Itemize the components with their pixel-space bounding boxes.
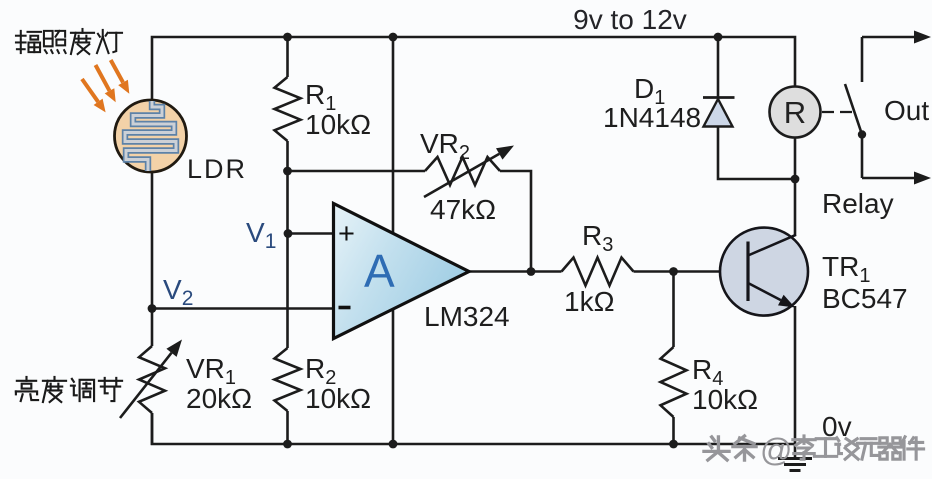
op-amp minus input label [339,306,351,310]
node op-amp output junction [527,267,536,276]
node D1 top junction [714,33,723,42]
svg-text:10kΩ: 10kΩ [305,109,371,140]
svg-text:LDR: LDR [187,154,247,184]
watermark chinese part1 [704,436,756,460]
label chinese brightness-adjust [16,377,122,402]
node x393 bottom junction [389,440,398,449]
svg-text:R: R [784,95,806,130]
LDR light arrow 1 [82,79,98,102]
node V2 junction [148,304,157,313]
transistor TR1 BC547 [720,228,808,316]
relay coil R [770,87,821,138]
wire R2 bottom to 0v rail [286,411,289,444]
wire node A to transistor base [674,270,749,273]
svg-text:47kΩ: 47kΩ [430,194,496,225]
svg-text:20kΩ: 20kΩ [186,383,252,414]
switch lower terminal wire and out arrow [861,135,864,179]
label chinese irradiance-lamp [16,29,122,54]
wire top supply rail [152,37,795,100]
wire D1 anode to relay bottom node [718,126,795,179]
wire R1 bottom node to VR2 left [288,170,426,173]
node R2 bottom junction [283,440,292,449]
wire op-amp output to R3 left [469,270,562,273]
watermark chinese part2 [793,436,924,459]
svg-text:9v to 12v: 9v to 12v [573,4,687,35]
wire V1 node to op-amp non-inverting input [288,232,333,235]
wire V2 node to op-amp inverting input [152,307,333,310]
node R4 bottom junction [669,440,678,449]
node x393 top junction [389,33,398,42]
resistor R3 [562,258,634,286]
svg-text:+: + [338,218,355,250]
LDR light arrow 3 [111,60,123,82]
wire VR2 right down to output node [500,171,531,272]
wire LDR bottom to V2 node to VR1 top [151,171,154,346]
svg-text:V2: V2 [163,274,193,310]
wire relay bottom node to collector [794,138,797,236]
wire supply rail to R1 top [286,37,289,77]
svg-text:10kΩ: 10kΩ [692,384,758,415]
svg-text:R3: R3 [582,220,613,256]
svg-text:TR1: TR1 [822,251,870,287]
ground symbol [778,457,812,460]
svg-text:V1: V1 [246,217,276,253]
resistor R2 [275,348,301,411]
wire R4 bottom to 0v rail [672,417,675,444]
relay actuator dashed link [822,111,856,113]
svg-text:Out: Out [884,95,929,126]
node V1 junction [284,229,293,238]
LDR light arrow 2 [96,65,110,91]
node R1 top junction [283,33,292,42]
switch upper terminal wire and out arrow [862,36,914,38]
LDR photoresistor [115,100,187,172]
diode D1 1N4148 [704,99,733,127]
wire supply rail to D1 cathode [717,37,720,98]
svg-text:LM324: LM324 [424,301,510,332]
wire R1 bottom through V1 node to R2 top [286,141,289,348]
svg-text:VR2: VR2 [420,128,470,164]
svg-text:1kΩ: 1kΩ [564,286,615,317]
wire R3 right to node A [634,270,674,273]
svg-text:BC547: BC547 [822,283,908,314]
svg-text:@: @ [760,432,792,468]
potentiometer VR1 [139,346,165,413]
wire VR1 bottom to 0v rail [151,413,154,445]
node R1/VR2 junction [283,167,292,176]
svg-text:10kΩ: 10kΩ [305,383,371,414]
switch blade [845,84,862,135]
resistor R1 [275,77,301,141]
switch pivot dot [858,130,866,138]
potentiometer VR2 [425,157,500,185]
transistor TR1 emitter arrow [749,284,781,301]
wire supply rail to 0v rail at x=393 [392,37,395,444]
node relay/D1/collector junction [791,175,800,184]
wire bottom 0v rail [152,413,795,444]
wire node A down to R4 top [672,272,675,348]
wire emitter to 0v rail and ground stub [794,306,797,458]
svg-text:1N4148: 1N4148 [603,102,701,133]
node A R3/R4/base junction [669,267,678,276]
resistor R4 [661,347,687,417]
svg-text:A: A [364,245,395,297]
svg-text:Relay: Relay [822,188,894,219]
